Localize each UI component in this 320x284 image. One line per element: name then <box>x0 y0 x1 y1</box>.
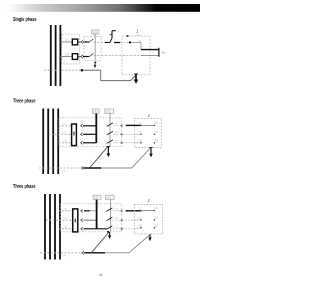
terminal U2 <box>154 210 156 212</box>
connector X1 key tick <box>74 219 76 223</box>
earth branch to unit <box>132 148 151 168</box>
contact row2 <box>81 133 83 136</box>
wire L2 to X1 <box>46 219 73 221</box>
mechanical link <box>94 34 96 60</box>
bus line N <box>55 25 57 86</box>
wire row2 stub into unit <box>135 133 141 135</box>
svg-text:M1: M1 <box>162 51 166 55</box>
terminal V1 <box>140 219 142 221</box>
svg-text:Three phase: Three phase <box>13 184 36 190</box>
wire L to fuse F1 <box>59 41 72 43</box>
wire to unit (dashed) <box>120 41 129 43</box>
connector X1 body <box>73 209 78 232</box>
PE drop from switch enclosure <box>100 70 102 81</box>
wire blade1 out (dashed) <box>113 210 121 212</box>
earth branch to switch <box>90 147 108 168</box>
switch Q1 blade pole2 <box>89 54 94 58</box>
earth arrow unit1 <box>134 74 139 84</box>
terminal W1 <box>140 142 142 144</box>
PE riser diagonal <box>131 76 136 81</box>
wire L1 to X1 <box>59 125 72 127</box>
junction dot on enclosure <box>107 231 109 233</box>
blade row2 <box>106 217 112 221</box>
svg-text:1S1: 1S1 <box>94 196 99 200</box>
wire down to U1 <box>140 42 142 49</box>
fuse enclosure (dashed) <box>62 34 80 64</box>
load wire U2 <box>141 55 159 57</box>
label box 1X1 <box>105 109 114 113</box>
busbar <box>95 113 97 143</box>
PE rail (dashed) <box>40 252 81 254</box>
main feed wire row1 <box>126 124 141 126</box>
wire L2 to X1 <box>52 133 72 135</box>
wire row3 to busbar <box>83 142 96 144</box>
wire row3 to busbar <box>84 228 107 230</box>
switch enclosure (dashed) <box>84 37 101 61</box>
actuator arrow <box>94 61 97 68</box>
earth arrow unit <box>149 148 153 158</box>
svg-text:14: 14 <box>99 273 103 277</box>
earth arrow switch <box>108 232 111 239</box>
blade row3 <box>107 140 113 144</box>
contact row1 <box>81 124 83 127</box>
earth arrow unit <box>148 234 151 241</box>
connector contact row2 <box>81 55 83 58</box>
wire F2 to connector <box>78 56 80 58</box>
link U1-U2 <box>141 124 154 126</box>
svg-text:1: 1 <box>148 113 151 118</box>
PE contact <box>81 166 83 169</box>
blade row1 <box>106 208 112 212</box>
wire blade3 out (dashed) <box>113 228 135 230</box>
bus line L1 <box>44 194 46 260</box>
label box 1S1 <box>93 109 100 113</box>
header gradient bar <box>0 4 200 12</box>
PE junction dot <box>81 69 84 72</box>
mechanical link (dashed) <box>110 199 112 231</box>
terminal W1 <box>140 227 142 229</box>
PE wire thick <box>84 252 105 254</box>
contact row2 <box>81 219 83 222</box>
svg-text:1PE: 1PE <box>62 256 67 258</box>
wire row2 to busbar <box>83 133 96 135</box>
svg-text:1PE: 1PE <box>62 171 67 173</box>
terminal V1 <box>140 134 142 136</box>
PE rail (dashed) <box>44 69 81 71</box>
contact row1 at enclosure <box>121 210 123 212</box>
svg-text:1: 1 <box>136 29 139 34</box>
blade row3 <box>106 226 112 230</box>
terminal U1 <box>140 125 142 127</box>
contact row3 at enclosure <box>121 228 123 230</box>
wire contact to switch row2 <box>83 56 89 58</box>
wire row3 stub into unit <box>135 142 141 144</box>
wire S1 out <box>114 42 120 44</box>
wire row3 stub into unit <box>134 227 140 230</box>
terminal W2 <box>154 227 156 229</box>
bus line L3 <box>54 194 56 260</box>
contact row1 at enclosure <box>121 125 123 127</box>
PE wire thin <box>101 167 131 169</box>
contact row3 <box>81 227 83 230</box>
wire Q1 to S1 (dashed) <box>94 41 105 43</box>
wire N to unit <box>94 55 141 57</box>
fuse F1 <box>72 39 77 45</box>
terminal W2 <box>154 142 156 144</box>
bus line PE <box>59 194 61 260</box>
junction dot on enclosure edge <box>127 35 129 37</box>
wire L3 to X1 <box>59 228 73 230</box>
bus line L <box>50 25 52 86</box>
wire blade2 out (dashed) <box>113 219 135 221</box>
contact row2 at enclosure <box>121 219 123 221</box>
PE wire thin <box>105 252 129 254</box>
wire L3 to X1 <box>59 142 72 144</box>
earth branch to unit <box>129 235 150 253</box>
wire into unit <box>131 41 141 43</box>
PE wire thick <box>83 167 101 169</box>
connector X1 key tick <box>73 132 75 136</box>
wire blade2 out (dashed) <box>113 133 134 135</box>
label box 1S1 <box>93 195 101 199</box>
wire N to fuse F2 <box>59 56 72 58</box>
connector contact row1 <box>81 41 83 44</box>
contact row1 <box>81 209 83 212</box>
bus line L2 <box>47 109 49 175</box>
terminal U1 <box>140 210 142 212</box>
unit enclosure (dashed) <box>135 118 162 147</box>
switch label box 1S1 <box>92 30 99 34</box>
link U1-U2 <box>141 209 154 211</box>
svg-text:1: 1 <box>147 198 150 203</box>
terminal U2 <box>154 125 156 127</box>
bus line L3 <box>52 109 54 175</box>
main feed wire row1 <box>126 210 141 212</box>
svg-text:Single phase: Single phase <box>13 17 37 23</box>
svg-text:1S1: 1S1 <box>92 30 97 34</box>
wire F1 to connector <box>78 41 80 43</box>
PE wire lower run <box>101 80 131 82</box>
contact row3 at enclosure <box>121 142 123 144</box>
wire row2 to busbar <box>84 219 97 221</box>
switch assembly enclosure (dashed) <box>59 118 122 147</box>
blade row1 <box>107 123 113 127</box>
svg-text:1N1: 1N1 <box>65 54 70 57</box>
svg-text:1X1: 1X1 <box>106 196 111 200</box>
load wire U1 <box>141 49 159 51</box>
bus line PE <box>57 109 59 175</box>
junction dot <box>129 41 131 43</box>
svg-text:1X1: 1X1 <box>106 110 111 114</box>
wire L1 to X1 <box>59 210 73 212</box>
svg-text:1S1: 1S1 <box>93 110 98 114</box>
contact row3 <box>81 141 83 144</box>
label box 1X1 <box>106 195 115 199</box>
unit enclosure (dashed) <box>134 204 162 234</box>
earth arrow switch <box>107 146 111 157</box>
blade row2 <box>107 131 113 135</box>
switch assembly enclosure (dashed) <box>60 204 121 232</box>
link bar U1-U2 <box>158 48 159 57</box>
wire blade1 out (dashed) <box>113 125 120 127</box>
switch Q1 blade pole1 <box>89 39 94 43</box>
svg-text:1L1: 1L1 <box>65 39 70 42</box>
fuse F2 <box>72 54 77 60</box>
wire row1 to busbar <box>83 125 96 127</box>
PE contact <box>82 251 84 254</box>
unit 1 enclosure (dashed) <box>122 36 150 75</box>
svg-text:Three phase: Three phase <box>13 98 36 104</box>
PE rail (dashed) <box>39 167 81 169</box>
wire row2 stub into unit <box>134 219 140 221</box>
connector X1 body <box>72 124 77 146</box>
switch S1 <box>105 31 116 43</box>
wire row1 to busbar <box>84 210 90 212</box>
PE wire <box>82 69 101 71</box>
terminal V2 <box>154 134 156 136</box>
contact row2 at enclosure <box>121 133 123 135</box>
wire contact to switch row1 <box>83 41 89 43</box>
busbar <box>96 199 98 229</box>
bus line L2 <box>49 194 51 260</box>
bus line PE <box>59 25 61 86</box>
wire blade3 out (dashed) <box>113 142 134 144</box>
bus line L1 <box>42 109 44 175</box>
mechanical link (dashed) <box>109 113 111 146</box>
earth branch to switch <box>92 232 109 252</box>
terminal V2 <box>154 219 156 221</box>
